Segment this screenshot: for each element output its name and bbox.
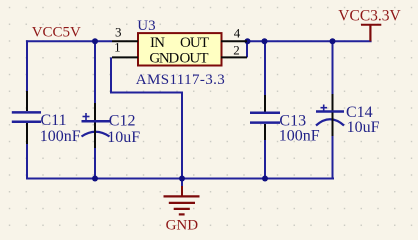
svg-text:GND: GND bbox=[149, 51, 179, 67]
C14 designator bbox=[346, 104, 373, 121]
svg-text:C11: C11 bbox=[41, 112, 67, 129]
svg-text:VCC3.3V: VCC3.3V bbox=[338, 8, 401, 25]
U3 designator bbox=[137, 18, 155, 34]
C12 value 10uF bbox=[107, 129, 140, 146]
svg-text:10uF: 10uF bbox=[347, 119, 380, 136]
svg-text:100nF: 100nF bbox=[40, 128, 81, 145]
U3 pin name OUT (bottom) bbox=[180, 51, 209, 67]
C11 designator bbox=[41, 112, 67, 129]
wire C13 column bbox=[264, 41, 266, 178]
wire pin2 riser to OUT net bbox=[246, 41, 248, 57]
capacitor C11 bbox=[12, 91, 41, 144]
node junction C12/bottom rail bbox=[92, 176, 98, 182]
U3 pin name OUT (top) bbox=[180, 35, 209, 51]
node junction VCC5V/C12 bbox=[92, 38, 98, 44]
svg-text:U3: U3 bbox=[137, 18, 155, 34]
node junction C13/OUT bbox=[262, 38, 268, 44]
U3 pin 3 (IN) bbox=[112, 25, 138, 42]
svg-text:3: 3 bbox=[115, 25, 122, 40]
wire VCC5V horizontal top-left bbox=[26, 40, 112, 42]
wire GND stub below rail bbox=[181, 179, 183, 189]
svg-text:IN: IN bbox=[150, 35, 165, 51]
capacitor C13 bbox=[250, 95, 280, 140]
U3 value AMS1117-3.3 bbox=[136, 72, 225, 88]
U3 pin 2 (OUT) bbox=[221, 43, 247, 58]
ground symbol GND bbox=[164, 186, 200, 233]
U3 pin name IN bbox=[150, 35, 165, 51]
wire left rail vertical bbox=[26, 40, 28, 179]
wire C14 column bbox=[332, 41, 334, 178]
C14 value 10uF bbox=[347, 119, 380, 136]
svg-text:2: 2 bbox=[233, 43, 240, 58]
svg-text:100nF: 100nF bbox=[279, 128, 320, 145]
C11 value 100nF bbox=[40, 128, 81, 145]
svg-text:1: 1 bbox=[114, 39, 121, 54]
C12 designator bbox=[109, 112, 136, 129]
capacitor C14 (polarized) bbox=[316, 94, 344, 136]
node junction pin2/OUT bbox=[245, 38, 251, 44]
capacitor C12 (polarized) bbox=[82, 103, 111, 148]
svg-text:10uF: 10uF bbox=[107, 129, 140, 146]
svg-text:OUT: OUT bbox=[180, 35, 209, 51]
node junction C13/bottom rail bbox=[262, 176, 268, 182]
power port VCC3.3V bbox=[338, 8, 401, 42]
svg-text:VCC5V: VCC5V bbox=[32, 24, 81, 40]
U3 pin 1 (GND) bbox=[112, 39, 138, 57]
svg-text:4: 4 bbox=[234, 25, 241, 40]
wire C12 column bbox=[94, 41, 96, 178]
U3 pin 4 (OUT) bbox=[221, 25, 247, 41]
node junction GND/bottom rail bbox=[179, 176, 185, 182]
node junction C14/OUT bbox=[330, 38, 336, 44]
wire bottom rail bbox=[26, 178, 334, 180]
svg-text:GND: GND bbox=[166, 217, 199, 233]
svg-text:AMS1117-3.3: AMS1117-3.3 bbox=[136, 72, 225, 88]
regulator U3 body bbox=[138, 33, 222, 65]
C13 designator bbox=[279, 112, 306, 129]
svg-text:C12: C12 bbox=[109, 112, 136, 129]
U3 pin name GND bbox=[149, 51, 179, 67]
wire OUT net horizontal bbox=[246, 40, 372, 42]
svg-text:OUT: OUT bbox=[180, 51, 209, 67]
C13 value 100nF bbox=[279, 128, 320, 145]
wire GND net from pin 1 bbox=[111, 57, 182, 178]
net label VCC5V bbox=[32, 24, 81, 40]
